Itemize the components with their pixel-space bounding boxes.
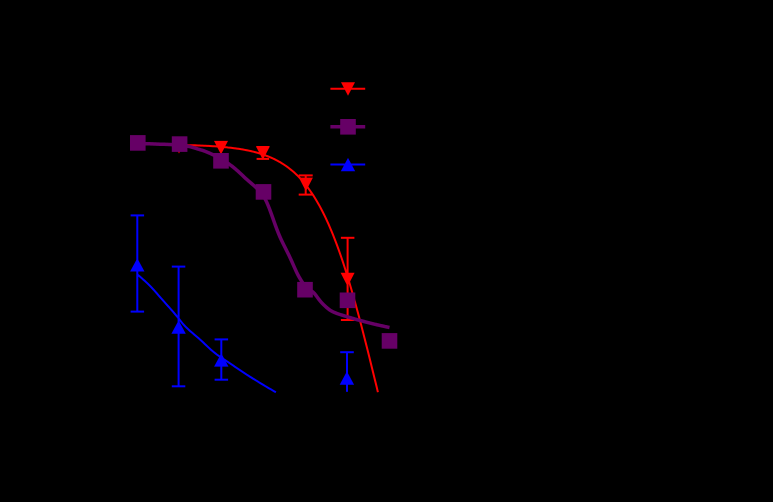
legend entry 1: red line + down triangle (330, 82, 365, 96)
blue marker dose 6 (340, 371, 354, 384)
purple marker dose 6 (340, 293, 356, 309)
blue marker dose 1 (130, 258, 144, 271)
blue error bar dose 1 x=137.3 (131, 215, 145, 311)
red error bar, dose 6 x=347.6 (341, 238, 355, 320)
red marker dose 3 (214, 141, 228, 155)
purple marker dose 1 (130, 135, 146, 151)
purple marker dose 7 (382, 333, 398, 349)
red error bar, dose 5 x=305.7 (299, 175, 313, 194)
red marker dose 1 (hidden behind purple square) (131, 137, 145, 151)
purple series fitted sigmoid curve (138, 143, 390, 327)
legend entry 3: blue line + up triangle (330, 158, 365, 171)
blue error bar dose 3 x=221.3 (215, 339, 229, 379)
purple marker dose 2 (172, 136, 188, 152)
purple marker dose 5 (297, 282, 313, 298)
legend entry 2: purple line + square (330, 119, 365, 135)
blue marker dose 2 (171, 320, 185, 333)
red series fitted sigmoid curve (186, 145, 378, 392)
purple marker dose 4 (256, 184, 272, 200)
purple marker dose 3 (213, 153, 229, 169)
red marker dose 4 (256, 146, 270, 160)
red marker dose 5 (299, 178, 313, 192)
blue marker dose 3 (214, 353, 228, 366)
blue series fitted exponential curve (137, 275, 276, 393)
blue error bar dose 6 x=347.0 (no bottom cap) (340, 352, 354, 392)
blue error bar dose 2 x=178.6 (172, 267, 186, 387)
red error bar, dose 4 x=262.9 (257, 147, 270, 159)
red marker dose 2 (apex peeks below purple square) (172, 140, 186, 154)
red marker dose 6 (341, 273, 355, 287)
